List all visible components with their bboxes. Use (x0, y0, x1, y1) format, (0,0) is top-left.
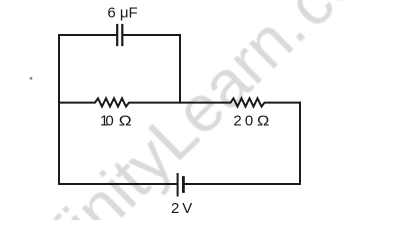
svg-text:2: 2 (233, 113, 241, 130)
svg-text:0: 0 (105, 113, 113, 130)
svg-text:InfinityLearn.: InfinityLearn. (0, 0, 319, 220)
svg-text:V: V (182, 200, 192, 217)
svg-text:0: 0 (245, 113, 253, 130)
svg-text:Ω: Ω (257, 113, 269, 130)
svg-text:Ω: Ω (119, 113, 132, 130)
svg-text:6 μF: 6 μF (107, 4, 137, 21)
svg-text:2: 2 (171, 200, 179, 217)
